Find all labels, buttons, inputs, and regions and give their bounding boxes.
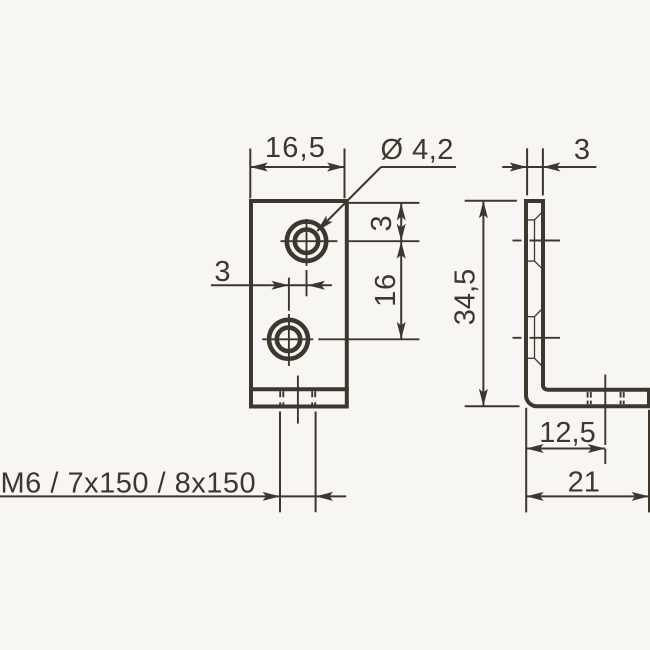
svg-text:34,5: 34,5: [450, 269, 482, 325]
svg-text:16: 16: [370, 273, 402, 307]
svg-text:3: 3: [214, 256, 230, 288]
svg-text:Ø 4,2: Ø 4,2: [381, 134, 454, 166]
svg-text:M6 / 7x150 / 8x150: M6 / 7x150 / 8x150: [1, 468, 257, 500]
svg-text:3: 3: [366, 215, 398, 231]
svg-text:12,5: 12,5: [539, 417, 595, 449]
svg-text:21: 21: [568, 467, 600, 499]
svg-text:3: 3: [574, 134, 590, 166]
svg-text:16,5: 16,5: [265, 132, 326, 164]
